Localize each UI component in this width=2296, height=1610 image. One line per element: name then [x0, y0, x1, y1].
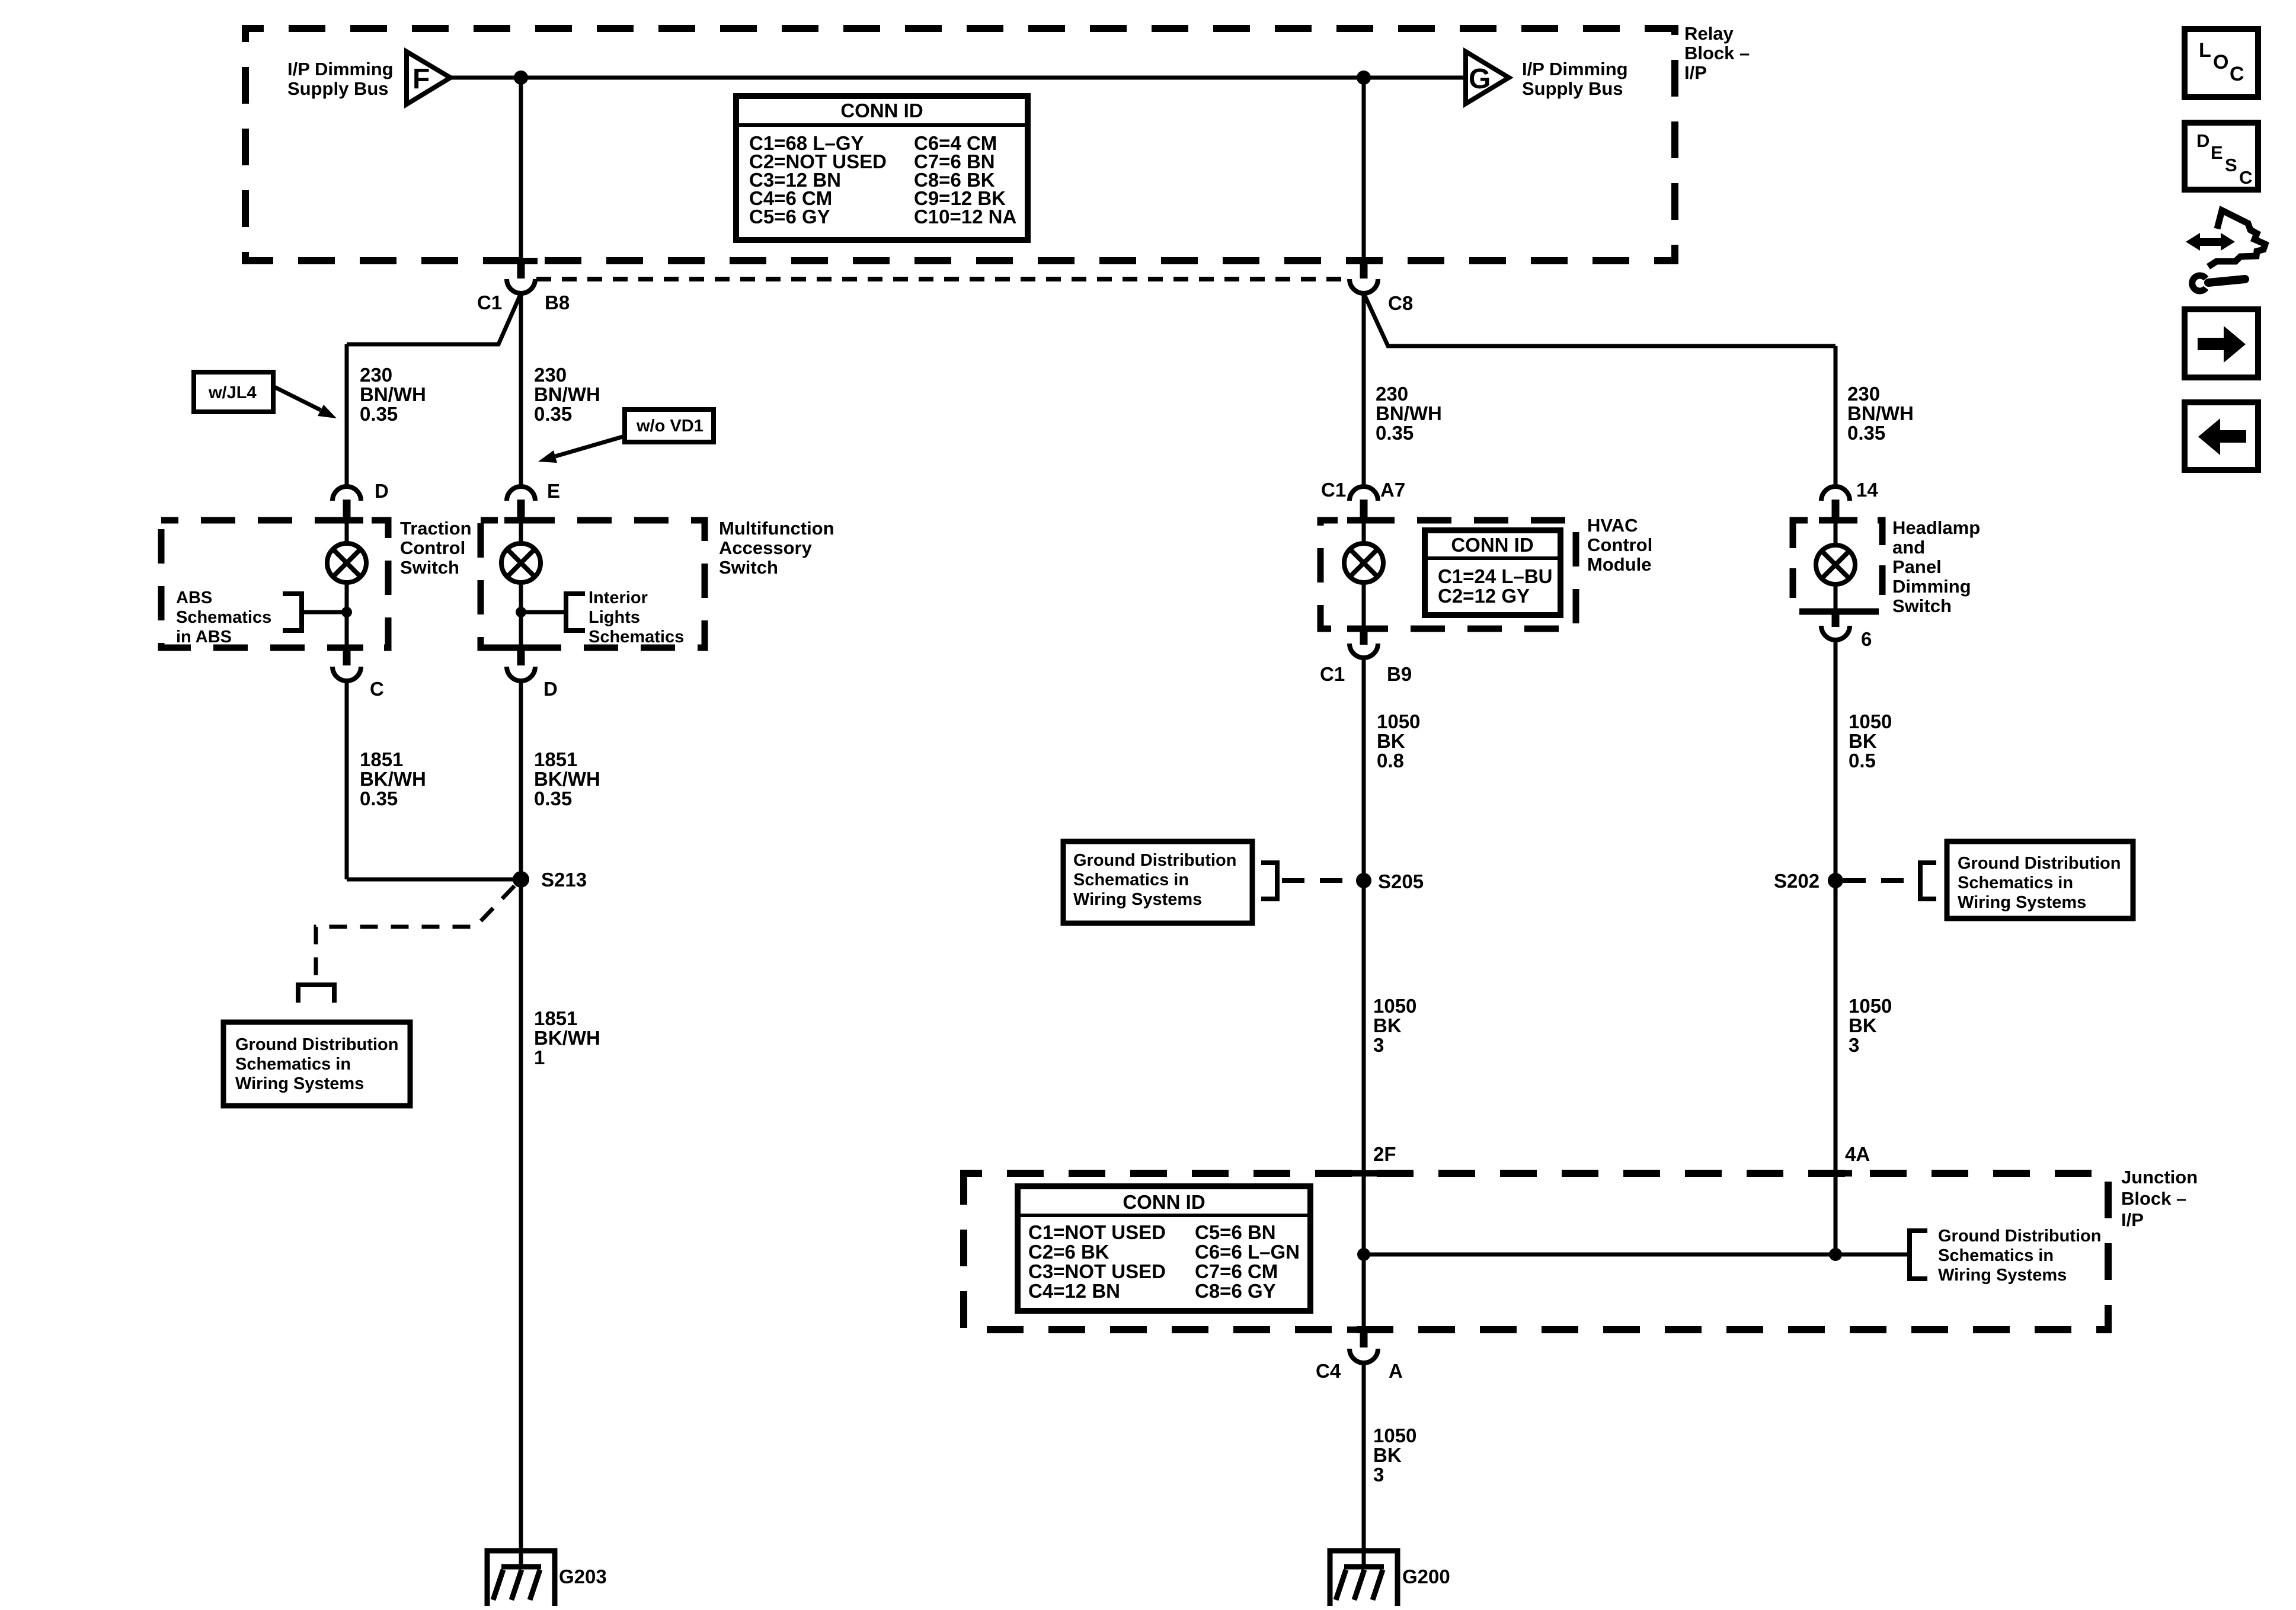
svg-text:Control: Control — [400, 537, 465, 558]
svg-text:Schematics in: Schematics in — [1958, 873, 2073, 892]
bracket to interior lights note — [566, 594, 585, 630]
junction block label — [2121, 1167, 2198, 1230]
crossing bar at multifunction box bottom — [504, 645, 538, 651]
connector C8 (stub and cup) — [1350, 261, 1413, 314]
svg-text:0.8: 0.8 — [1377, 750, 1404, 772]
crossing bar at multifunction box top — [504, 517, 538, 524]
svg-text:3: 3 — [1849, 1034, 1859, 1056]
sidebar repair icon (part outline) — [2208, 210, 2265, 267]
bracket (junction ground note) — [1910, 1231, 1927, 1279]
svg-text:ABS: ABS — [176, 588, 212, 607]
svg-text:BK: BK — [1373, 1014, 1402, 1036]
svg-text:Control: Control — [1587, 534, 1652, 555]
CONN ID table (junction block) — [1018, 1186, 1310, 1311]
svg-text:w/JL4: w/JL4 — [208, 383, 257, 402]
wire col4 6 to junction block — [1834, 640, 1838, 1173]
svg-text:C3=NOT USED: C3=NOT USED — [1028, 1260, 1166, 1282]
svg-text:1851: 1851 — [360, 748, 403, 770]
lamp (HVAC illumination) — [1344, 543, 1383, 582]
svg-text:Schematics in: Schematics in — [1073, 870, 1189, 889]
bracket (S202 note) — [1920, 863, 1936, 899]
svg-text:Lights: Lights — [589, 608, 640, 627]
wire: col2 main drop B8 to E — [519, 293, 523, 487]
svg-text:D: D — [2196, 130, 2209, 151]
svg-text:230: 230 — [1847, 383, 1880, 405]
svg-text:0.5: 0.5 — [1849, 750, 1876, 772]
splice S213 — [513, 871, 529, 888]
svg-text:and: and — [1892, 537, 1925, 558]
svg-text:Traction: Traction — [400, 518, 472, 539]
svg-text:1050: 1050 — [1373, 1425, 1416, 1446]
svg-text:BN/WH: BN/WH — [360, 383, 426, 405]
svg-text:O: O — [2213, 51, 2228, 73]
connector 6 (headlamp switch output) — [1821, 612, 1872, 650]
svg-text:C: C — [2230, 63, 2244, 85]
wire col4 into junction bus — [1834, 1173, 1838, 1254]
sidebar repair icon (double arrow) — [2186, 233, 2235, 251]
HVAC control module dashed box — [1320, 520, 1576, 629]
svg-text:Interior: Interior — [589, 588, 648, 607]
svg-text:B9: B9 — [1387, 663, 1412, 685]
ground G203 — [487, 1551, 607, 1606]
connector E (multifunction switch input) — [507, 480, 560, 520]
connector C (traction switch output) — [332, 648, 384, 700]
splice S202 — [1828, 873, 1843, 888]
wire label 1050 BK 0.8 col3 — [1377, 710, 1420, 772]
svg-text:S202: S202 — [1774, 870, 1819, 892]
callout w/JL4 — [194, 372, 337, 418]
CONN ID table (HVAC) — [1425, 530, 1560, 615]
svg-text:1050: 1050 — [1849, 710, 1892, 732]
svg-text:G203: G203 — [559, 1566, 607, 1587]
svg-text:C8: C8 — [1388, 292, 1413, 314]
svg-text:C6=6 L–GN: C6=6 L–GN — [1195, 1241, 1300, 1263]
svg-text:C8=6 GY: C8=6 GY — [1195, 1280, 1276, 1302]
traction control switch label — [400, 518, 472, 578]
wire label 1050 BK 3 col4 — [1849, 995, 1892, 1056]
crossing bar at relay bottom col3 — [1347, 258, 1380, 264]
svg-text:C2=6 BK: C2=6 BK — [1028, 1241, 1109, 1263]
crossing bar at relay bottom col2 — [504, 258, 538, 264]
wire inside HVAC box — [1362, 520, 1366, 629]
connector C4/A (junction output) — [1316, 1330, 1403, 1382]
svg-text:D: D — [375, 480, 389, 502]
svg-text:2F: 2F — [1373, 1143, 1396, 1165]
svg-text:BN/WH: BN/WH — [1847, 402, 1914, 424]
crossing bar at junction top col3 — [1347, 1170, 1380, 1177]
svg-text:L: L — [2199, 39, 2211, 62]
crossing bar at junction top col4 — [1819, 1170, 1852, 1177]
connector C1/B8 (stub and cup) — [477, 261, 570, 313]
wire label 230 BN/WH 0.35 col4 — [1847, 383, 1914, 444]
svg-text:Supply Bus: Supply Bus — [287, 78, 389, 99]
svg-text:230: 230 — [360, 364, 392, 386]
junction block I/P dashed box — [964, 1173, 2108, 1330]
svg-text:Wiring Systems: Wiring Systems — [1938, 1266, 2067, 1285]
svg-text:1851: 1851 — [534, 1007, 577, 1029]
svg-text:Switch: Switch — [1892, 596, 1952, 616]
crossing bar at HVAC box bottom — [1347, 626, 1380, 632]
svg-text:HVAC: HVAC — [1587, 515, 1638, 536]
headlamp and panel dimming switch dashed box — [1793, 520, 1882, 612]
crossing bar at junction bottom col3 — [1347, 1327, 1380, 1333]
svg-text:C4=12 BN: C4=12 BN — [1028, 1280, 1120, 1302]
lamp (traction switch illumination) — [327, 543, 366, 582]
wire label 1050 BK 3 col3 — [1373, 995, 1416, 1056]
svg-text:1: 1 — [534, 1046, 545, 1068]
svg-text:BK: BK — [1849, 1014, 1877, 1036]
svg-text:Headlamp: Headlamp — [1892, 517, 1980, 538]
svg-text:G200: G200 — [1402, 1566, 1450, 1587]
pointer staple — [298, 985, 334, 1003]
junction dot col2 lamp tap — [516, 607, 526, 617]
svg-text:C7=6 CM: C7=6 CM — [1195, 1260, 1278, 1282]
sidebar back icon (left arrow) — [2185, 402, 2258, 470]
svg-text:1851: 1851 — [534, 748, 577, 770]
wire label 230 BN/WH 0.35 col3 — [1376, 383, 1442, 444]
svg-text:3: 3 — [1373, 1464, 1384, 1486]
svg-text:Schematics in: Schematics in — [1938, 1246, 2054, 1265]
svg-text:Junction: Junction — [2121, 1167, 2198, 1188]
svg-text:Ground Distribution: Ground Distribution — [1958, 854, 2121, 873]
svg-text:I/P Dimming: I/P Dimming — [287, 59, 394, 79]
svg-text:1050: 1050 — [1377, 710, 1420, 732]
junction dot on bus at col2 — [514, 71, 528, 85]
svg-text:E: E — [547, 480, 560, 502]
wire: col3 main drop C8 to A7 — [1362, 293, 1366, 487]
wire junction to bracket — [521, 610, 566, 614]
connector C1/B9 (HVAC output) — [1320, 629, 1412, 685]
svg-text:Module: Module — [1587, 554, 1652, 575]
svg-text:0.35: 0.35 — [534, 788, 572, 809]
svg-text:C: C — [370, 678, 384, 700]
HVAC control module label — [1587, 515, 1652, 575]
svg-text:Supply Bus: Supply Bus — [1522, 78, 1623, 99]
bracket to ABS note — [283, 594, 302, 630]
headlamp and panel dimming switch label — [1892, 517, 1980, 616]
wire C4/A to ground — [1362, 1363, 1366, 1568]
callout w/o VD1 — [538, 409, 714, 463]
svg-text:BK/WH: BK/WH — [360, 768, 426, 790]
wire: col4 drop to headlamp switch — [1834, 346, 1838, 487]
svg-text:Relay: Relay — [1684, 23, 1734, 44]
connector D (multifunction switch output) — [507, 648, 558, 700]
ground distribution note box (S213) — [223, 1022, 410, 1106]
crossing bar at headlamp box top — [1819, 517, 1852, 524]
wire label 1851 BK/WH 0.35 col1 — [360, 748, 426, 809]
wire: dimming supply bus horizontal — [450, 76, 1466, 80]
svg-text:Wiring Systems: Wiring Systems — [1073, 890, 1202, 909]
relay block label — [1684, 23, 1750, 83]
svg-text:BK/WH: BK/WH — [534, 768, 600, 790]
sidebar LOC icon — [2185, 29, 2258, 97]
crossing bar at traction box top — [330, 517, 363, 524]
wire: C8 to right branch diagonal — [1364, 293, 1835, 346]
wire: col3 drop from bus to relay bottom — [1362, 78, 1366, 261]
wire inside traction box — [345, 520, 349, 648]
wire inside multifunction box — [519, 520, 523, 648]
node F: I/P Dimming Supply Bus off-page triangle — [287, 52, 450, 104]
svg-text:C: C — [2239, 167, 2252, 188]
node G: I/P Dimming Supply Bus off-page triangle — [1466, 52, 1628, 104]
svg-text:B8: B8 — [545, 292, 570, 313]
svg-text:I/P: I/P — [2121, 1209, 2144, 1230]
ground distribution note box (S202) — [1947, 841, 2133, 918]
svg-text:BK: BK — [1373, 1444, 1402, 1466]
wire col1 down to S213 level — [345, 681, 349, 879]
svg-text:C1=24 L–BU: C1=24 L–BU — [1438, 565, 1553, 587]
wire label 1851 BK/WH 0.35 col2 — [534, 748, 600, 809]
wire: col1 drop to switch — [345, 344, 349, 487]
svg-text:Schematics: Schematics — [176, 608, 271, 627]
svg-text:CONN ID: CONN ID — [1451, 534, 1533, 556]
wire col2 down through S213 to ground — [519, 681, 523, 1568]
svg-text:C1: C1 — [1321, 479, 1346, 501]
dashed lead from S202 — [1843, 878, 1919, 883]
svg-text:S205: S205 — [1378, 870, 1424, 892]
in-line connector dashed interface — [536, 277, 1350, 281]
svg-text:BK: BK — [1377, 730, 1405, 752]
wire label 1050 BK 0.5 col4 — [1849, 710, 1892, 772]
connector 14 (headlamp switch input) — [1821, 479, 1878, 520]
traction control switch dashed box — [161, 520, 388, 648]
svg-text:Block –: Block – — [1684, 43, 1750, 63]
wire col3 B9 to junction block — [1362, 658, 1366, 1173]
svg-text:0.35: 0.35 — [1376, 422, 1414, 444]
svg-text:I/P Dimming: I/P Dimming — [1522, 59, 1628, 79]
svg-text:0.35: 0.35 — [534, 403, 572, 425]
svg-text:C1: C1 — [477, 292, 502, 313]
svg-text:14: 14 — [1856, 479, 1878, 501]
svg-text:Panel: Panel — [1892, 556, 1942, 577]
junction dot col4 bus — [1829, 1248, 1842, 1261]
ABS schematics note — [176, 588, 271, 646]
wire label 230 BN/WH 0.35 col2 — [534, 364, 600, 425]
svg-text:Wiring Systems: Wiring Systems — [1958, 893, 2086, 912]
svg-text:A7: A7 — [1380, 479, 1405, 501]
junction dot on bus at col3 — [1357, 71, 1371, 85]
dashed lead to S205 — [1282, 878, 1356, 883]
junction dot col1 lamp tap — [341, 607, 352, 617]
svg-text:1050: 1050 — [1849, 995, 1892, 1017]
svg-text:230: 230 — [534, 364, 567, 386]
svg-text:C4: C4 — [1316, 1360, 1341, 1382]
svg-text:6: 6 — [1861, 628, 1872, 650]
ground distribution note (junction block) — [1938, 1227, 2101, 1285]
svg-text:w/o VD1: w/o VD1 — [636, 417, 703, 436]
svg-text:D: D — [543, 678, 558, 700]
wire inside headlamp box — [1834, 520, 1838, 612]
svg-text:BK/WH: BK/WH — [534, 1027, 600, 1049]
wire col3 through junction block — [1362, 1173, 1366, 1330]
wire: B8 to left branch diagonal — [347, 293, 521, 344]
svg-text:Switch: Switch — [400, 557, 459, 578]
svg-text:Dimming: Dimming — [1892, 576, 1971, 597]
sidebar next icon (right arrow) — [2185, 309, 2258, 377]
svg-text:E: E — [2211, 142, 2223, 163]
svg-text:Ground Distribution: Ground Distribution — [1938, 1227, 2101, 1246]
lamp (headlamp switch illumination) — [1816, 545, 1855, 584]
relay block I/P dashed box — [245, 28, 1675, 261]
sidebar DESC icon — [2185, 123, 2258, 190]
crossing bar at HVAC box top — [1347, 517, 1380, 524]
svg-text:Ground Distribution: Ground Distribution — [235, 1035, 398, 1054]
svg-text:C1=NOT USED: C1=NOT USED — [1028, 1221, 1166, 1243]
svg-text:Switch: Switch — [719, 557, 778, 578]
connector D (traction switch input) — [332, 480, 389, 520]
svg-text:0.35: 0.35 — [360, 403, 398, 425]
svg-text:Schematics: Schematics — [589, 628, 684, 646]
bracket (S205 note) — [1261, 863, 1277, 899]
svg-text:Ground Distribution: Ground Distribution — [1073, 851, 1236, 870]
dashed pointer from S213 to ground note — [316, 886, 514, 978]
svg-text:S213: S213 — [541, 869, 587, 891]
crossing bar at headlamp box bottom — [1819, 609, 1852, 615]
svg-text:C5=6 GY: C5=6 GY — [749, 206, 830, 228]
svg-text:in ABS: in ABS — [176, 628, 232, 646]
wire: col2 drop from bus to relay bottom — [519, 78, 523, 261]
svg-text:1050: 1050 — [1373, 995, 1416, 1017]
svg-text:BN/WH: BN/WH — [1376, 402, 1442, 424]
wire label 230 BN/WH 0.35 col1 — [360, 364, 426, 425]
splice S205 — [1356, 873, 1371, 888]
svg-text:I/P: I/P — [1684, 62, 1707, 83]
svg-text:C2=12 GY: C2=12 GY — [1438, 585, 1530, 607]
svg-text:3: 3 — [1373, 1034, 1384, 1056]
svg-text:C10=12 NA: C10=12 NA — [914, 206, 1016, 228]
svg-text:CONN ID: CONN ID — [840, 100, 923, 121]
multifunction accessory switch label — [719, 518, 834, 578]
svg-text:4A: 4A — [1845, 1143, 1870, 1165]
svg-text:CONN ID: CONN ID — [1123, 1191, 1205, 1213]
wire label 1050 BK 3 (ground leg) — [1373, 1425, 1416, 1486]
wire label 1851 BK/WH 1 — [534, 1007, 600, 1068]
svg-text:Block –: Block – — [2121, 1188, 2186, 1209]
connector C1/A7 (HVAC input) — [1321, 479, 1405, 520]
lamp (multifunction switch illumination) — [501, 543, 541, 582]
wire col1 horizontal into S213 — [347, 878, 521, 882]
svg-text:Schematics in: Schematics in — [235, 1055, 351, 1074]
svg-text:0.35: 0.35 — [1847, 422, 1885, 444]
crossing bar at traction box bottom — [330, 645, 363, 651]
svg-text:S: S — [2225, 155, 2237, 175]
wire bracket to junction — [302, 610, 347, 614]
multifunction accessory switch dashed box — [481, 520, 705, 648]
CONN ID table (relay block) — [736, 96, 1028, 240]
svg-text:Accessory: Accessory — [719, 537, 813, 558]
svg-text:0.35: 0.35 — [360, 788, 398, 809]
svg-text:C5=6 BN: C5=6 BN — [1195, 1221, 1276, 1243]
svg-text:G: G — [1469, 63, 1491, 95]
junction dot col3 bus — [1357, 1248, 1370, 1261]
sidebar repair icon (wrench) — [2192, 276, 2245, 291]
svg-text:F: F — [412, 63, 430, 95]
svg-text:Wiring Systems: Wiring Systems — [235, 1074, 364, 1093]
ground G200 — [1330, 1551, 1450, 1606]
ground distribution note box (S205) — [1063, 841, 1252, 923]
interior lights note — [589, 588, 684, 646]
svg-text:Multifunction: Multifunction — [719, 518, 834, 539]
svg-text:BN/WH: BN/WH — [534, 383, 600, 405]
svg-text:A: A — [1389, 1360, 1403, 1382]
svg-text:BK: BK — [1849, 730, 1877, 752]
svg-text:C1: C1 — [1320, 663, 1345, 685]
junction bus horizontal wire — [1364, 1253, 1910, 1257]
svg-text:230: 230 — [1376, 383, 1408, 405]
